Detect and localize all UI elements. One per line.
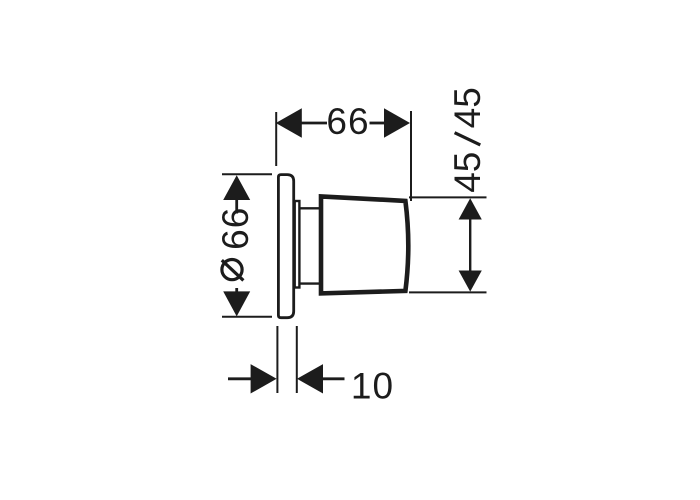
dim 45/45: up arrowhead xyxy=(459,198,482,219)
stem collar outer (cylinder at wall plate) xyxy=(295,201,300,288)
dim 10: right arrowhead (points left) xyxy=(297,364,323,393)
svg-text:66: 66 xyxy=(326,101,369,142)
dim Ø66: top tick line xyxy=(222,173,272,175)
dim 66: right arrowhead xyxy=(384,108,410,137)
dim Ø66: upper tail xyxy=(235,200,238,214)
dim 10: left arrowhead (points right) xyxy=(251,364,277,393)
dim 10: left tail xyxy=(228,377,251,380)
dim 66: dimension line left tail xyxy=(302,122,328,125)
dim 45/45: bottom extension line xyxy=(409,291,487,293)
dim Ø66: lower tail xyxy=(235,288,238,292)
dim 10: left extension line xyxy=(276,326,278,393)
dim 66: right extension line xyxy=(410,111,412,201)
dim 66: dimension line right tail xyxy=(370,122,385,125)
dim 45/45: label slash xyxy=(455,133,481,145)
dim 45/45: dimension line xyxy=(469,218,471,272)
dim 66: left extension line xyxy=(275,112,277,166)
dim Ø66: down arrowhead xyxy=(223,291,250,316)
dim Ø66: bottom tick line xyxy=(222,316,272,318)
svg-text:66: 66 xyxy=(215,207,256,250)
dim 66: left arrowhead xyxy=(276,108,302,137)
wall plate (escutcheon, side view) xyxy=(278,175,293,318)
handle (thick outline, tapers slightly, convex right face) xyxy=(321,196,408,293)
dim 10: right tail xyxy=(322,377,345,380)
dim 10: right extension line xyxy=(296,326,298,393)
stem collar inner (small cylinder between plate and handle) xyxy=(301,208,321,283)
svg-text:10: 10 xyxy=(351,365,394,406)
svg-text:45: 45 xyxy=(447,87,488,128)
dim Ø66: up arrowhead xyxy=(223,175,250,200)
dim 45/45: top extension line xyxy=(409,196,487,198)
svg-text:45: 45 xyxy=(447,152,488,193)
dim 45/45: down arrowhead xyxy=(459,271,482,292)
dim Ø66: diameter symbol circle xyxy=(222,260,242,280)
dim Ø66: diameter symbol slash xyxy=(222,260,244,280)
